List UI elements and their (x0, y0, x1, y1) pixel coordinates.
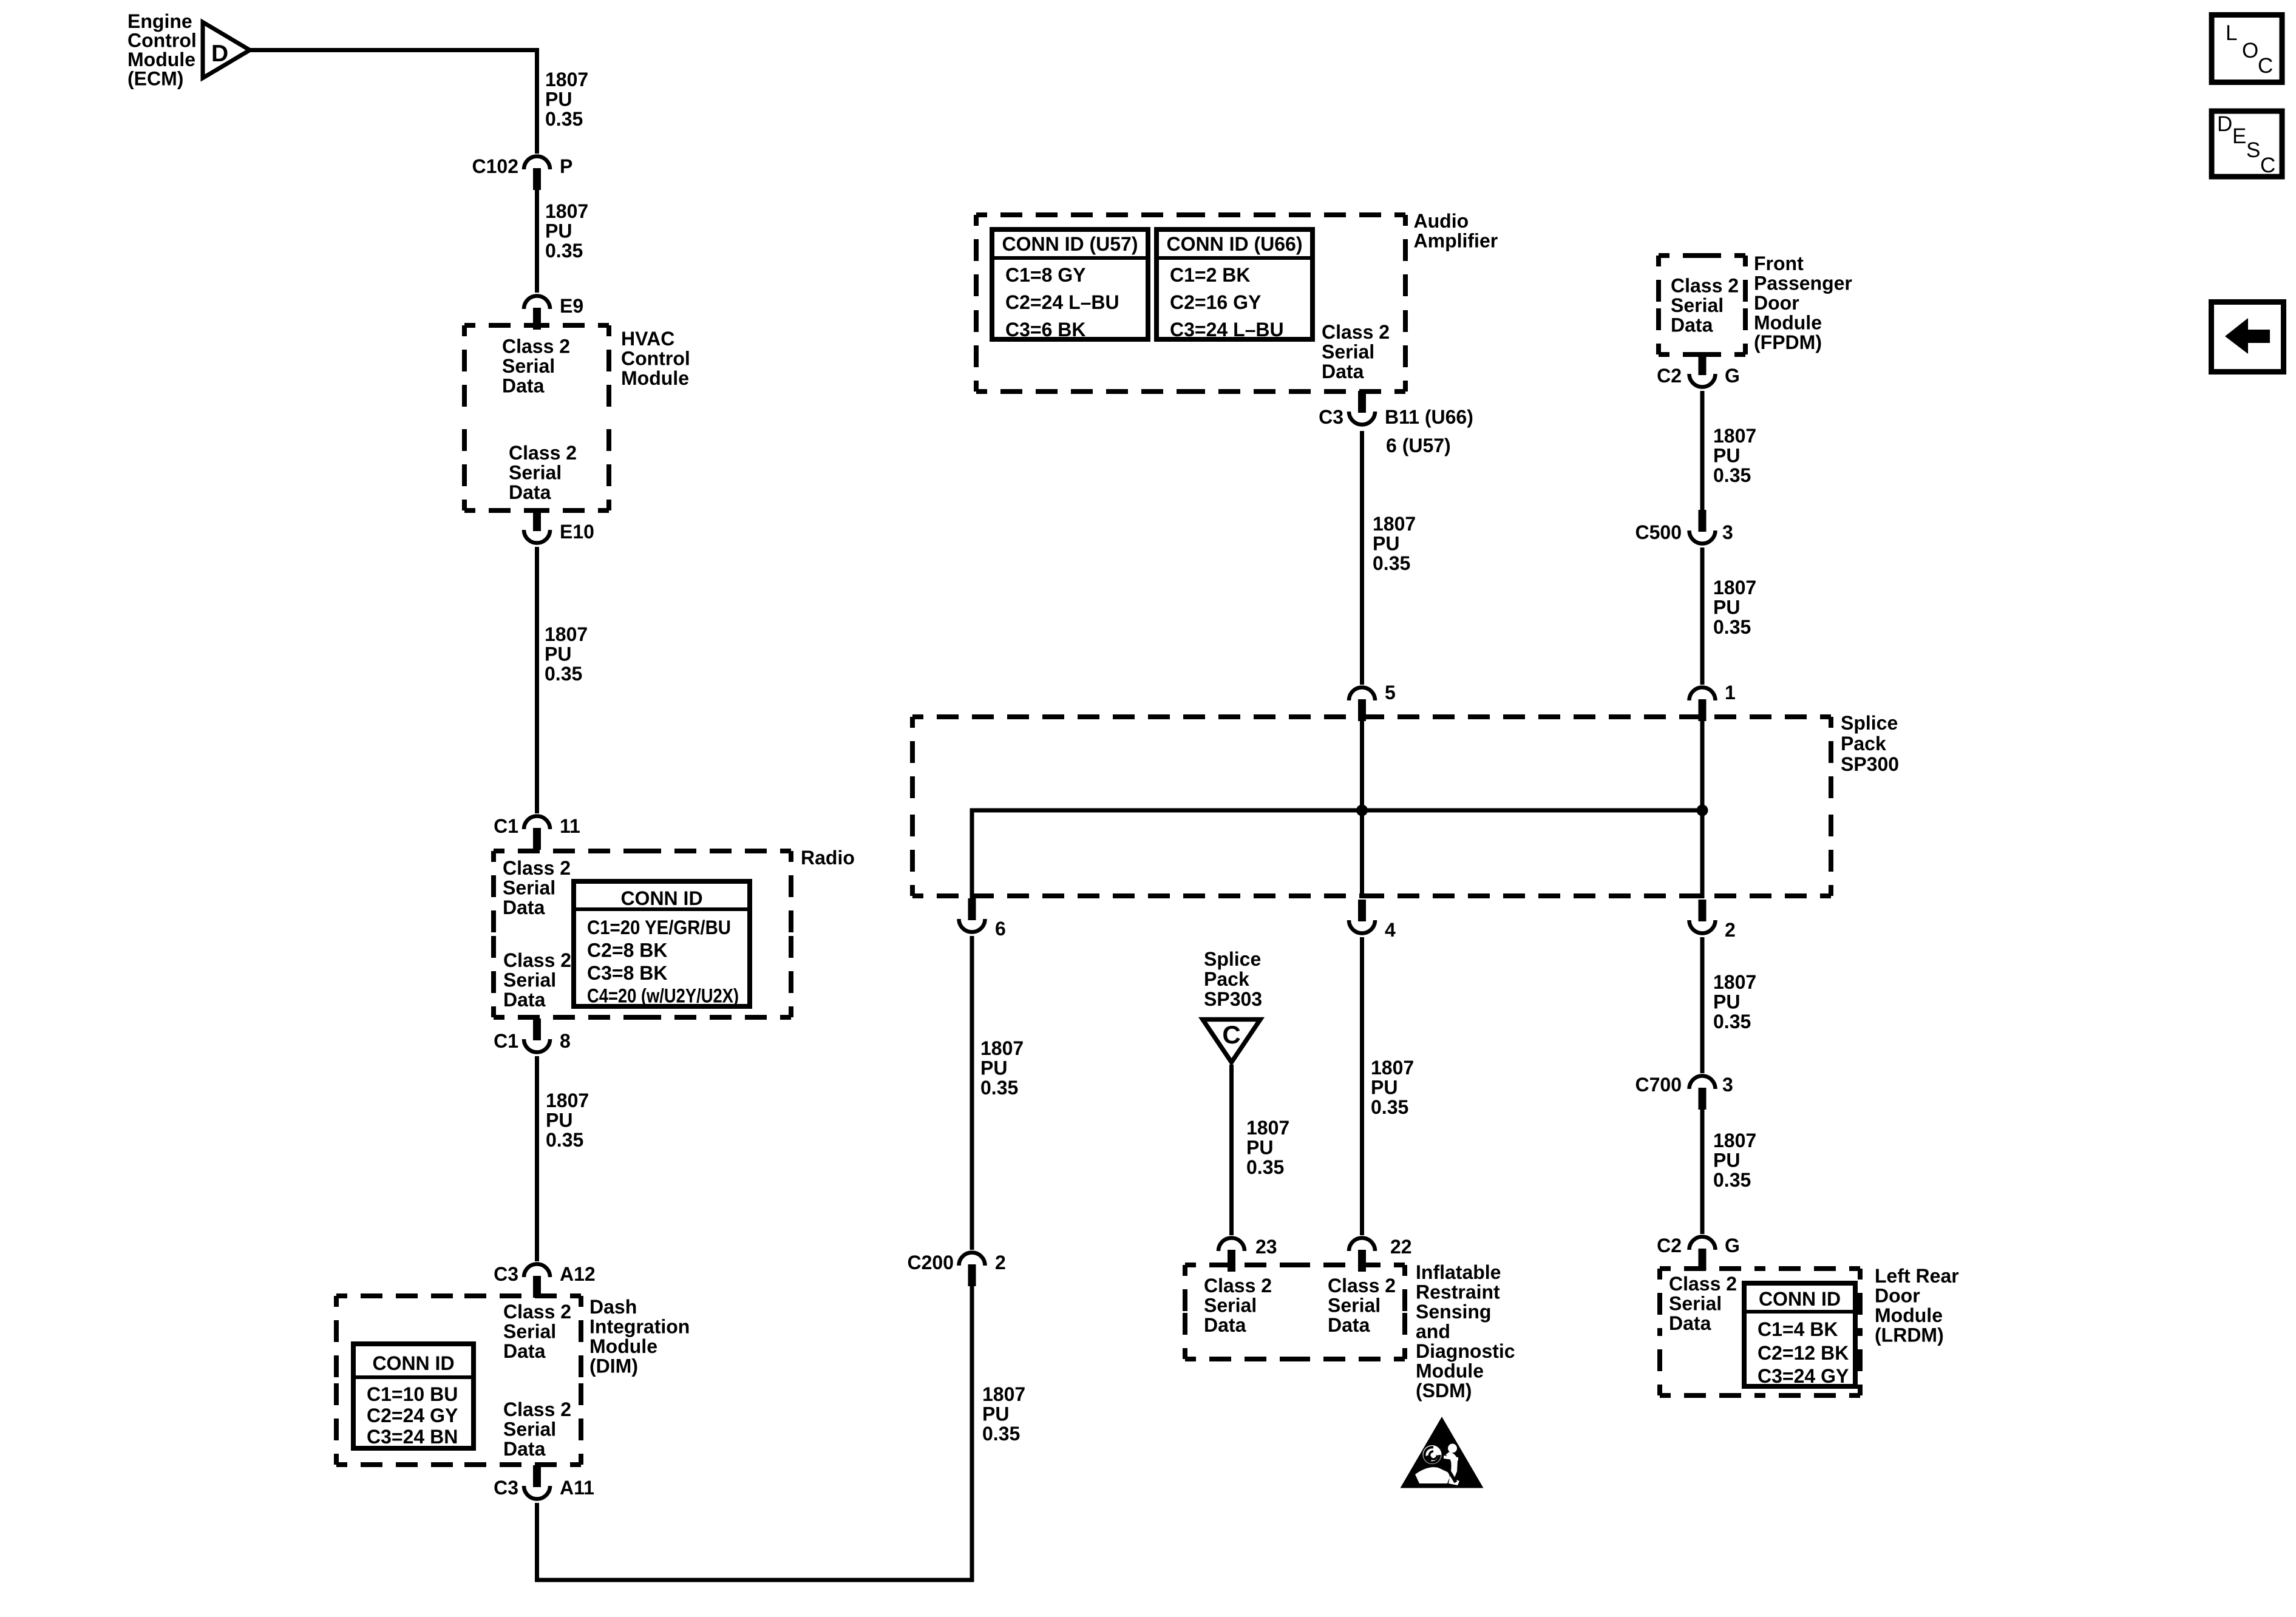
svg-text:PU: PU (1246, 1137, 1273, 1159)
svg-text:C1=2 BK: C1=2 BK (1170, 264, 1251, 286)
net Class 2 Serial Data (HVAC out) (509, 442, 577, 503)
svg-text:and: and (1416, 1321, 1450, 1343)
svg-text:C200: C200 (908, 1252, 954, 1273)
svg-text:Serial: Serial (503, 1321, 556, 1343)
label HVAC Control Module (621, 328, 690, 389)
wire radio C1-8 to DIM C3-A12 (1807 PU) (535, 1056, 539, 1261)
svg-text:(ECM): (ECM) (127, 68, 183, 90)
label Splice Pack SP300 (1841, 712, 1899, 775)
wire label 1807 PU 0.35 (C700-LRDM) (1713, 1130, 1756, 1191)
svg-text:0.35: 0.35 (1713, 1169, 1751, 1191)
svg-text:3: 3 (1722, 1074, 1733, 1096)
svg-text:0.35: 0.35 (546, 1129, 583, 1151)
svg-text:PU: PU (1371, 1077, 1398, 1099)
svg-text:PU: PU (980, 1057, 1007, 1079)
svg-text:C1=20 YE/GR/BU: C1=20 YE/GR/BU (587, 917, 731, 938)
label Dash Integration Module (DIM) (589, 1296, 690, 1377)
connector C102 pin P (524, 157, 550, 191)
svg-text:2: 2 (1725, 919, 1736, 941)
svg-text:C2: C2 (1657, 1235, 1682, 1256)
svg-text:PU: PU (545, 643, 571, 665)
svg-text:C3=24 BN: C3=24 BN (367, 1426, 458, 1448)
svg-text:C: C (2260, 154, 2275, 177)
connector symbol D (ECM output triangle) (203, 22, 250, 78)
svg-text:Front: Front (1754, 253, 1804, 274)
wire C102 to E9 (1807 PU) (535, 188, 539, 293)
svg-text:Pack: Pack (1841, 733, 1886, 754)
svg-text:C3=8 BK: C3=8 BK (587, 962, 668, 984)
svg-text:Class 2: Class 2 (503, 1301, 571, 1323)
splice pack SP303 triangle C (1203, 1020, 1260, 1063)
svg-text:PU: PU (1713, 991, 1740, 1013)
svg-text:Audio: Audio (1414, 210, 1469, 232)
svg-text:Door: Door (1754, 292, 1799, 314)
label Inflatable Restraint Sensing and Diagnostic Module (SDM) (1416, 1261, 1515, 1402)
wire FPDM to C500 (1807 PU) (1700, 391, 1705, 511)
svg-text:1807: 1807 (545, 200, 588, 222)
svg-text:C3=24 L–BU: C3=24 L–BU (1170, 319, 1284, 341)
symbol SRS airbag caution triangle (1401, 1417, 1484, 1488)
svg-text:1807: 1807 (980, 1037, 1024, 1059)
svg-text:Data: Data (1322, 361, 1364, 382)
svg-text:D: D (2217, 112, 2232, 136)
svg-text:0.35: 0.35 (982, 1423, 1020, 1445)
wire label 1807 PU 0.35 (SP300-SDM) (1371, 1057, 1414, 1118)
svg-text:6 (U57): 6 (U57) (1386, 435, 1451, 456)
svg-text:Inflatable: Inflatable (1416, 1261, 1501, 1283)
svg-text:HVAC: HVAC (621, 328, 674, 350)
svg-text:G: G (1725, 1235, 1740, 1256)
wire SP300 pin5 to bus to pin4 (1360, 719, 1364, 898)
wire C700 to LRDM C2-G (1807 PU) (1700, 1107, 1705, 1234)
svg-text:Splice: Splice (1841, 712, 1898, 734)
svg-text:Restraint: Restraint (1416, 1281, 1500, 1303)
module Left Rear Door Module box (1660, 1269, 1860, 1395)
svg-text:Class 2: Class 2 (503, 857, 571, 879)
svg-text:C500: C500 (1635, 521, 1682, 543)
svg-text:Data: Data (1669, 1312, 1711, 1334)
junction dot on bus at pin 1/2 line (1697, 805, 1708, 816)
svg-text:PU: PU (982, 1403, 1009, 1425)
wire SP300 pin 6 to C200 (1807 PU) (970, 936, 974, 1250)
connector SP300 pin 6 (959, 898, 985, 932)
svg-text:C2=16 GY: C2=16 GY (1170, 291, 1261, 313)
connector C700 pin 3 (1690, 1076, 1716, 1110)
net Class 2 Serial Data (DIM in) (503, 1301, 571, 1362)
wire E10 to radio C1-11 (1807 PU) (535, 547, 539, 813)
label Engine Control Module (ECM) (127, 10, 197, 90)
svg-text:C1=4 BK: C1=4 BK (1758, 1318, 1838, 1340)
svg-text:C2=8 BK: C2=8 BK (587, 940, 668, 961)
svg-text:Serial: Serial (1204, 1295, 1257, 1317)
svg-text:PU: PU (546, 1110, 572, 1131)
svg-text:(SDM): (SDM) (1416, 1380, 1472, 1402)
splice pack SP300 box (912, 717, 1831, 896)
module Front Passenger Door Module box (1659, 256, 1745, 354)
connector SDM pin 22 (1349, 1238, 1375, 1272)
svg-text:22: 22 (1390, 1236, 1412, 1258)
svg-text:D: D (211, 41, 228, 67)
net Class 2 Serial Data (Audio Amplifier) (1322, 321, 1390, 382)
svg-text:Serial: Serial (503, 1419, 556, 1440)
svg-text:Class 2: Class 2 (1671, 275, 1739, 297)
legend box back arrow (2212, 302, 2284, 372)
svg-text:C4=20 (w/U2Y/U2X): C4=20 (w/U2Y/U2X) (587, 985, 739, 1007)
wire amplifier to SP300 pin 5 (1807 PU) (1360, 431, 1364, 685)
wire label 1807 PU 0.35 (ECM-C102) (545, 69, 588, 130)
svg-text:PU: PU (545, 220, 572, 242)
svg-text:5: 5 (1385, 682, 1396, 703)
svg-text:1807: 1807 (1373, 513, 1416, 535)
svg-text:11: 11 (560, 815, 580, 837)
connector SP300 pin 1 (1690, 688, 1716, 722)
svg-text:0.35: 0.35 (545, 663, 582, 685)
svg-text:C2: C2 (1657, 365, 1682, 387)
svg-text:Splice: Splice (1204, 948, 1261, 970)
svg-text:Data: Data (1328, 1314, 1370, 1336)
wire label 1807 PU 0.35 (E10-Radio) (545, 623, 588, 685)
junction dot on bus at pin 5/4 line (1356, 805, 1368, 816)
table CONN ID (U66) (1156, 229, 1313, 341)
svg-text:Left Rear: Left Rear (1875, 1265, 1959, 1287)
svg-text:Module: Module (589, 1335, 657, 1357)
svg-text:C700: C700 (1635, 1074, 1682, 1096)
svg-text:1807: 1807 (1713, 971, 1756, 993)
svg-text:Amplifier: Amplifier (1414, 230, 1498, 252)
svg-text:C102: C102 (472, 155, 519, 177)
module Radio box (494, 851, 791, 1017)
net Class 2 Serial Data (Radio in) (503, 857, 571, 918)
svg-text:Serial: Serial (1671, 294, 1724, 316)
module SDM box (1185, 1265, 1405, 1359)
wire label 1807 PU 0.35 (A11-C200) (982, 1383, 1025, 1445)
connector C200 pin 2 (959, 1253, 985, 1287)
svg-text:CONN ID: CONN ID (620, 887, 702, 909)
svg-text:2: 2 (995, 1252, 1006, 1273)
svg-text:Serial: Serial (503, 877, 555, 899)
svg-text:Data: Data (503, 1340, 546, 1362)
svg-text:PU: PU (1373, 533, 1399, 555)
wire SP300 pin 4 to SDM pin 22 (1807 PU) (1360, 937, 1364, 1235)
svg-text:1807: 1807 (545, 623, 588, 645)
svg-text:C: C (1222, 1020, 1240, 1049)
svg-text:3: 3 (1722, 521, 1733, 543)
wire label 1807 PU 0.35 (SP300-C700) (1713, 971, 1756, 1032)
connector C2 pin G (FPDM) (1690, 353, 1716, 387)
svg-text:Class 2: Class 2 (1669, 1273, 1737, 1295)
svg-text:Module: Module (1875, 1304, 1943, 1326)
svg-text:O: O (2242, 39, 2258, 63)
svg-text:C2=24 GY: C2=24 GY (367, 1405, 458, 1426)
svg-text:1807: 1807 (1713, 425, 1756, 447)
label Splice Pack SP303 (1204, 948, 1262, 1010)
svg-text:C1=10 BU: C1=10 BU (367, 1383, 458, 1405)
net Class 2 Serial Data (Radio out) (503, 949, 571, 1011)
svg-text:A11: A11 (560, 1477, 594, 1499)
svg-text:0.35: 0.35 (1713, 1011, 1751, 1032)
svg-text:Module: Module (1754, 312, 1822, 334)
svg-text:PU: PU (1713, 597, 1740, 619)
svg-text:Data: Data (509, 481, 551, 503)
table CONN ID (LRDM) (1744, 1283, 1855, 1387)
svg-text:4: 4 (1385, 919, 1396, 941)
svg-text:8: 8 (560, 1030, 571, 1052)
svg-text:1807: 1807 (1713, 577, 1756, 598)
svg-text:E: E (2232, 124, 2246, 148)
svg-text:Serial: Serial (1322, 341, 1374, 363)
wire C500 to SP300 pin 1 (1807 PU) (1700, 547, 1705, 685)
wire ECM to C102 (circuit 1807 PU) (250, 50, 537, 154)
svg-text:Class 2: Class 2 (509, 442, 577, 464)
svg-text:SP300: SP300 (1841, 753, 1899, 775)
svg-text:Serial: Serial (502, 355, 555, 377)
svg-text:0.35: 0.35 (545, 240, 583, 262)
svg-text:C3=24 GY: C3=24 GY (1758, 1365, 1849, 1387)
module Dash Integration Module box (336, 1296, 581, 1465)
svg-text:Data: Data (503, 1438, 546, 1460)
wire SP300 internal bus (972, 810, 1702, 900)
connector SP300 pin 2 (1690, 900, 1716, 934)
wire label 1807 PU 0.35 (C500-SP300) (1713, 577, 1756, 638)
net Class 2 Serial Data (FPDM) (1671, 275, 1739, 336)
svg-text:0.35: 0.35 (545, 108, 583, 130)
svg-text:Integration: Integration (589, 1316, 690, 1338)
svg-text:Pack: Pack (1204, 968, 1249, 990)
connector E10 (HVAC Control Module) (524, 509, 550, 543)
wire label 1807 PU 0.35 (Amp-SP300) (1373, 513, 1416, 574)
svg-text:1807: 1807 (1713, 1130, 1756, 1151)
svg-text:Class 2: Class 2 (1322, 321, 1390, 343)
svg-text:Class 2: Class 2 (503, 949, 571, 971)
svg-text:A12: A12 (560, 1263, 596, 1285)
connector SDM pin 23 (1218, 1238, 1245, 1272)
wire label 1807 PU 0.35 (FPDM-C500) (1713, 425, 1756, 486)
svg-text:C1: C1 (494, 815, 518, 837)
table CONN ID (U57) (992, 229, 1148, 341)
svg-text:C3: C3 (1319, 406, 1343, 428)
svg-text:CONN ID (U66): CONN ID (U66) (1166, 233, 1302, 255)
label Left Rear Door Module (LRDM) (1875, 1265, 1959, 1346)
svg-text:Diagnostic: Diagnostic (1416, 1340, 1515, 1362)
svg-text:(DIM): (DIM) (589, 1355, 638, 1377)
connector E9 (HVAC Control Module) (524, 296, 550, 330)
svg-text:1807: 1807 (1246, 1117, 1289, 1139)
svg-text:Data: Data (503, 989, 546, 1011)
svg-text:0.35: 0.35 (1246, 1156, 1284, 1178)
svg-text:Radio: Radio (801, 847, 855, 869)
svg-text:Sensing: Sensing (1416, 1301, 1491, 1323)
wire label 1807 PU 0.35 (SP303-SDM) (1246, 1117, 1289, 1178)
table CONN ID (DIM) (353, 1344, 474, 1448)
module HVAC Control Module box (464, 325, 609, 510)
svg-text:PU: PU (545, 89, 572, 110)
svg-text:C1=8 GY: C1=8 GY (1005, 264, 1086, 286)
net Class 2 Serial Data (SDM 22) (1328, 1275, 1396, 1336)
svg-text:CONN ID: CONN ID (372, 1352, 454, 1374)
svg-text:Passenger: Passenger (1754, 273, 1852, 294)
svg-text:S: S (2246, 138, 2260, 162)
wire label 1807 PU 0.35 (C102-E9) (545, 200, 588, 262)
svg-text:Module: Module (1416, 1360, 1484, 1382)
svg-text:6: 6 (995, 918, 1006, 940)
svg-text:1807: 1807 (546, 1090, 589, 1111)
wire DIM A11 to C200 pin 2 (1807 PU) (537, 1284, 973, 1580)
svg-text:Dash: Dash (589, 1296, 637, 1318)
svg-text:Class 2: Class 2 (1328, 1275, 1396, 1297)
svg-text:CONN ID: CONN ID (1759, 1288, 1841, 1310)
svg-text:Class 2: Class 2 (1204, 1275, 1272, 1297)
svg-text:Data: Data (1671, 314, 1713, 336)
svg-text:E9: E9 (560, 295, 583, 317)
wire SP303 to SDM pin 23 (1807 PU) (1229, 1065, 1234, 1235)
net Class 2 Serial Data (DIM out) (503, 1398, 571, 1460)
svg-text:Serial: Serial (1669, 1293, 1722, 1315)
svg-text:(FPDM): (FPDM) (1754, 331, 1822, 353)
svg-text:B11 (U66): B11 (U66) (1385, 406, 1473, 428)
net Class 2 Serial Data (SDM 23) (1204, 1275, 1272, 1336)
svg-text:C1: C1 (494, 1030, 518, 1052)
svg-text:Serial: Serial (503, 969, 556, 991)
svg-text:0.35: 0.35 (980, 1077, 1018, 1099)
svg-text:Class 2: Class 2 (503, 1398, 571, 1420)
svg-text:0.35: 0.35 (1373, 552, 1410, 574)
svg-text:C3: C3 (494, 1263, 518, 1285)
svg-text:Module: Module (621, 367, 689, 389)
svg-text:CONN ID (U57): CONN ID (U57) (1002, 233, 1138, 255)
svg-text:C2=12 BK: C2=12 BK (1758, 1342, 1849, 1364)
svg-text:L: L (2226, 21, 2237, 45)
connector C2 pin G (LRDM) (1690, 1237, 1716, 1271)
svg-text:23: 23 (1255, 1236, 1277, 1258)
net Class 2 Serial Data (HVAC in) (502, 336, 570, 397)
svg-text:C3: C3 (494, 1477, 518, 1499)
svg-text:Class 2: Class 2 (502, 336, 570, 358)
svg-text:Data: Data (1204, 1314, 1246, 1336)
wire label 1807 PU 0.35 (Radio-DIM) (546, 1090, 589, 1151)
connector C3 pin B11/6 (Audio Amplifier) (1349, 391, 1375, 424)
svg-text:C3=6 BK: C3=6 BK (1005, 319, 1086, 341)
label Front Passenger Door Module (FPDM) (1754, 253, 1852, 353)
wire SP300 pin1 to bus to pin2 (1700, 719, 1705, 898)
legend box LOC (2212, 15, 2282, 83)
svg-text:(LRDM): (LRDM) (1875, 1324, 1944, 1346)
wire SP300 pin 2 to C700 (1807 PU) (1700, 937, 1705, 1073)
svg-text:C: C (2258, 54, 2273, 78)
net Class 2 Serial Data (LRDM) (1669, 1273, 1737, 1334)
svg-text:Door: Door (1875, 1285, 1920, 1307)
svg-text:0.35: 0.35 (1713, 616, 1751, 638)
svg-text:Control: Control (621, 348, 690, 370)
connector C500 pin 3 (1690, 510, 1716, 543)
svg-text:1807: 1807 (545, 69, 588, 90)
connector SP300 pin 4 (1349, 900, 1375, 934)
module Audio Amplifier box (976, 215, 1405, 392)
svg-text:G: G (1725, 365, 1740, 387)
svg-text:0.35: 0.35 (1371, 1096, 1408, 1118)
connector C3 pin A11 (DIM) (524, 1465, 550, 1499)
label Audio Amplifier (1414, 210, 1498, 252)
svg-text:1: 1 (1725, 682, 1736, 703)
svg-text:P: P (560, 155, 572, 177)
svg-text:SP303: SP303 (1204, 988, 1262, 1010)
connector C1 pin 11 (Radio) (524, 816, 550, 850)
svg-text:1807: 1807 (1371, 1057, 1414, 1079)
svg-text:Serial: Serial (1328, 1295, 1381, 1317)
svg-text:0.35: 0.35 (1713, 464, 1751, 486)
connector C1 pin 8 (Radio) (524, 1019, 550, 1053)
svg-text:C2=24 L–BU: C2=24 L–BU (1005, 291, 1119, 313)
svg-text:Serial: Serial (509, 462, 562, 484)
svg-text:Data: Data (503, 897, 545, 918)
wire label 1807 PU 0.35 (SP300-C200) (980, 1037, 1024, 1099)
svg-text:E10: E10 (560, 521, 594, 543)
svg-text:Data: Data (502, 375, 545, 397)
legend box DESC (2212, 111, 2282, 177)
svg-text:1807: 1807 (982, 1383, 1025, 1405)
table CONN ID (Radio) (574, 881, 750, 1007)
svg-text:PU: PU (1713, 1150, 1740, 1171)
connector SP300 pin 5 (1349, 688, 1375, 722)
svg-text:PU: PU (1713, 445, 1740, 467)
connector C3 pin A12 (DIM) (524, 1264, 550, 1298)
